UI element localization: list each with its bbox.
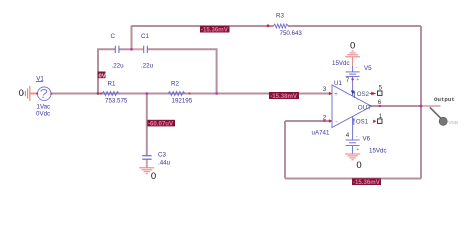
svg-text:VDB: VDB (448, 120, 458, 126)
bias label -15.38mV (269, 92, 299, 100)
wire: R row from tee to op-amp pin 3 (98, 93, 329, 95)
svg-text:753.575: 753.575 (105, 98, 128, 105)
svg-text:R1: R1 (108, 80, 116, 87)
svg-text:C3: C3 (158, 152, 166, 159)
svg-text:R2: R2 (171, 80, 179, 87)
wire: C1 right, over and down to R row (148, 49, 217, 93)
svg-text:1: 1 (379, 113, 383, 120)
junction C3 tee (146, 92, 149, 95)
voltage source V1 1Vac 0Vdc (36, 76, 52, 118)
pin 5 OS2 (353, 85, 383, 99)
svg-text:15Vdc: 15Vdc (369, 148, 387, 155)
svg-text:3: 3 (323, 86, 327, 93)
wire: between caps C and C1 (119, 48, 132, 50)
svg-text:OUT: OUT (358, 104, 371, 111)
pin 4 V- stub (346, 117, 353, 141)
svg-text:OS2: OS2 (357, 91, 370, 98)
svg-text:-15.36mV: -15.36mV (201, 27, 229, 34)
wire: junction to C1 left pin (red) (132, 48, 144, 50)
svg-text:+: + (356, 77, 359, 83)
svg-text:C: C (111, 33, 116, 40)
svg-text:+: + (356, 147, 359, 153)
capacitor C1 .22u (141, 33, 154, 69)
svg-text:V6: V6 (363, 136, 371, 143)
pin 1 OS1 (353, 113, 383, 126)
pin 3 (323, 86, 333, 95)
bias label -15.36mV top (200, 26, 230, 34)
bias label -60.07uV (147, 120, 175, 128)
svg-text:4: 4 (346, 132, 350, 139)
svg-text:.22u: .22u (112, 62, 125, 69)
resistor R3 750.643 (267, 13, 303, 37)
resistor R2 192195 (168, 80, 193, 104)
svg-text:U1: U1 (334, 80, 342, 87)
wire: output to port (421, 105, 441, 107)
svg-text:750.643: 750.643 (280, 30, 303, 37)
svg-text:7: 7 (346, 77, 350, 84)
wire: left column up and over to cap C (98, 49, 115, 93)
wire: V1 right to left column tee (51, 93, 99, 95)
dc source V6 15Vdc (346, 134, 387, 155)
svg-text:0: 0 (19, 88, 24, 98)
wire: C3 column down from R row (146, 94, 148, 156)
svg-text:Output: Output (434, 96, 455, 103)
ground 0 above V5 (345, 41, 360, 67)
junction output node (420, 105, 423, 108)
wire: top feedback row left of R3 (132, 25, 274, 27)
svg-text:0: 0 (356, 160, 361, 171)
svg-text:OS1: OS1 (356, 119, 369, 126)
pin 6 OUT (358, 99, 382, 111)
resistor R1 753.575 (100, 80, 128, 104)
ground 0 at V1 (19, 86, 37, 101)
svg-text:+: + (334, 92, 338, 98)
VDB probe (430, 107, 458, 126)
svg-text:.44u: .44u (158, 160, 171, 167)
pin 2 (323, 115, 333, 123)
svg-text:5: 5 (379, 85, 383, 92)
wire: op-amp output (372, 105, 422, 107)
wire: C/C1 junction up to top row (131, 26, 133, 50)
svg-text:0: 0 (151, 171, 156, 182)
svg-text:.22u: .22u (141, 62, 154, 69)
junction left column tee (97, 92, 100, 95)
wire: feedback left vertical (284, 121, 286, 179)
capacitor C .22u (111, 33, 125, 69)
svg-text:C1: C1 (141, 33, 149, 40)
svg-text:uA741: uA741 (312, 129, 330, 136)
junction C/C1 top tee (130, 48, 133, 51)
op-amp U1 uA741 (312, 80, 372, 137)
bias label 0V (98, 72, 106, 80)
wire: feedback right vertical (420, 26, 422, 179)
junction right C-row tee (215, 92, 218, 95)
bias label -15.36mV bottom (352, 178, 381, 186)
svg-text:15Vdc: 15Vdc (332, 60, 350, 67)
wire: feedback pin2 row (285, 120, 329, 122)
svg-text:-15.36mV: -15.36mV (353, 179, 381, 186)
pin 7 V+ stub (346, 77, 355, 96)
dc source V5 15Vdc (332, 60, 372, 83)
ground 0 at C3 (139, 168, 156, 182)
svg-text:-: - (335, 119, 337, 126)
svg-text:0: 0 (350, 41, 355, 52)
svg-text:-60.07uV: -60.07uV (148, 121, 174, 128)
svg-text:0Vdc: 0Vdc (36, 111, 50, 118)
svg-text:R3: R3 (276, 13, 284, 20)
wire: top feedback row right of R3 (288, 25, 421, 27)
svg-text:1Vac: 1Vac (37, 104, 51, 111)
svg-text:192195: 192195 (172, 98, 193, 105)
wire: feedback bottom row (285, 178, 421, 180)
svg-text:V5: V5 (364, 65, 372, 72)
svg-text:-15.38mV: -15.38mV (270, 93, 298, 100)
wire: C3 bottom plate to ground (146, 160, 148, 168)
capacitor C3 .44u (142, 152, 170, 167)
svg-text:0V: 0V (99, 73, 106, 79)
ground 0 below V6 (345, 154, 362, 171)
